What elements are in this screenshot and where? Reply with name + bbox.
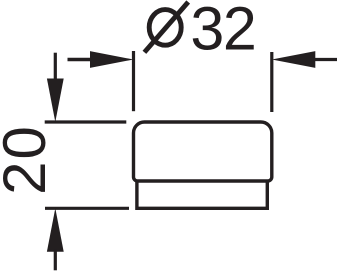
rubber buffer outline (rounded top body): [134, 122, 272, 181]
Ø32 dimension line left tail: [68, 58, 93, 61]
svg-text:20: 20: [0, 124, 58, 195]
20 bottom extension line: [45, 207, 129, 210]
Ø32 left arrowhead: [90, 51, 134, 68]
20 top arrowhead: [47, 79, 64, 123]
20 dimension line top tail: [54, 53, 57, 81]
base plate outline: [137, 181, 267, 208]
Ø32 right extension line: [270, 52, 273, 112]
20 top extension line: [45, 120, 127, 123]
svg-text:32: 32: [190, 0, 255, 62]
Ø32 right arrowhead: [272, 51, 316, 68]
Ø32 left extension line: [132, 51, 135, 111]
dimension text 20 (rotated): [0, 124, 58, 195]
20 bottom arrowhead: [47, 208, 64, 252]
diameter symbol of Ø32 dimension: [144, 2, 188, 52]
dimension text 32: [190, 0, 255, 62]
Ø32 dimension line right tail: [313, 58, 337, 61]
20 dimension line bottom tail: [54, 250, 57, 270]
